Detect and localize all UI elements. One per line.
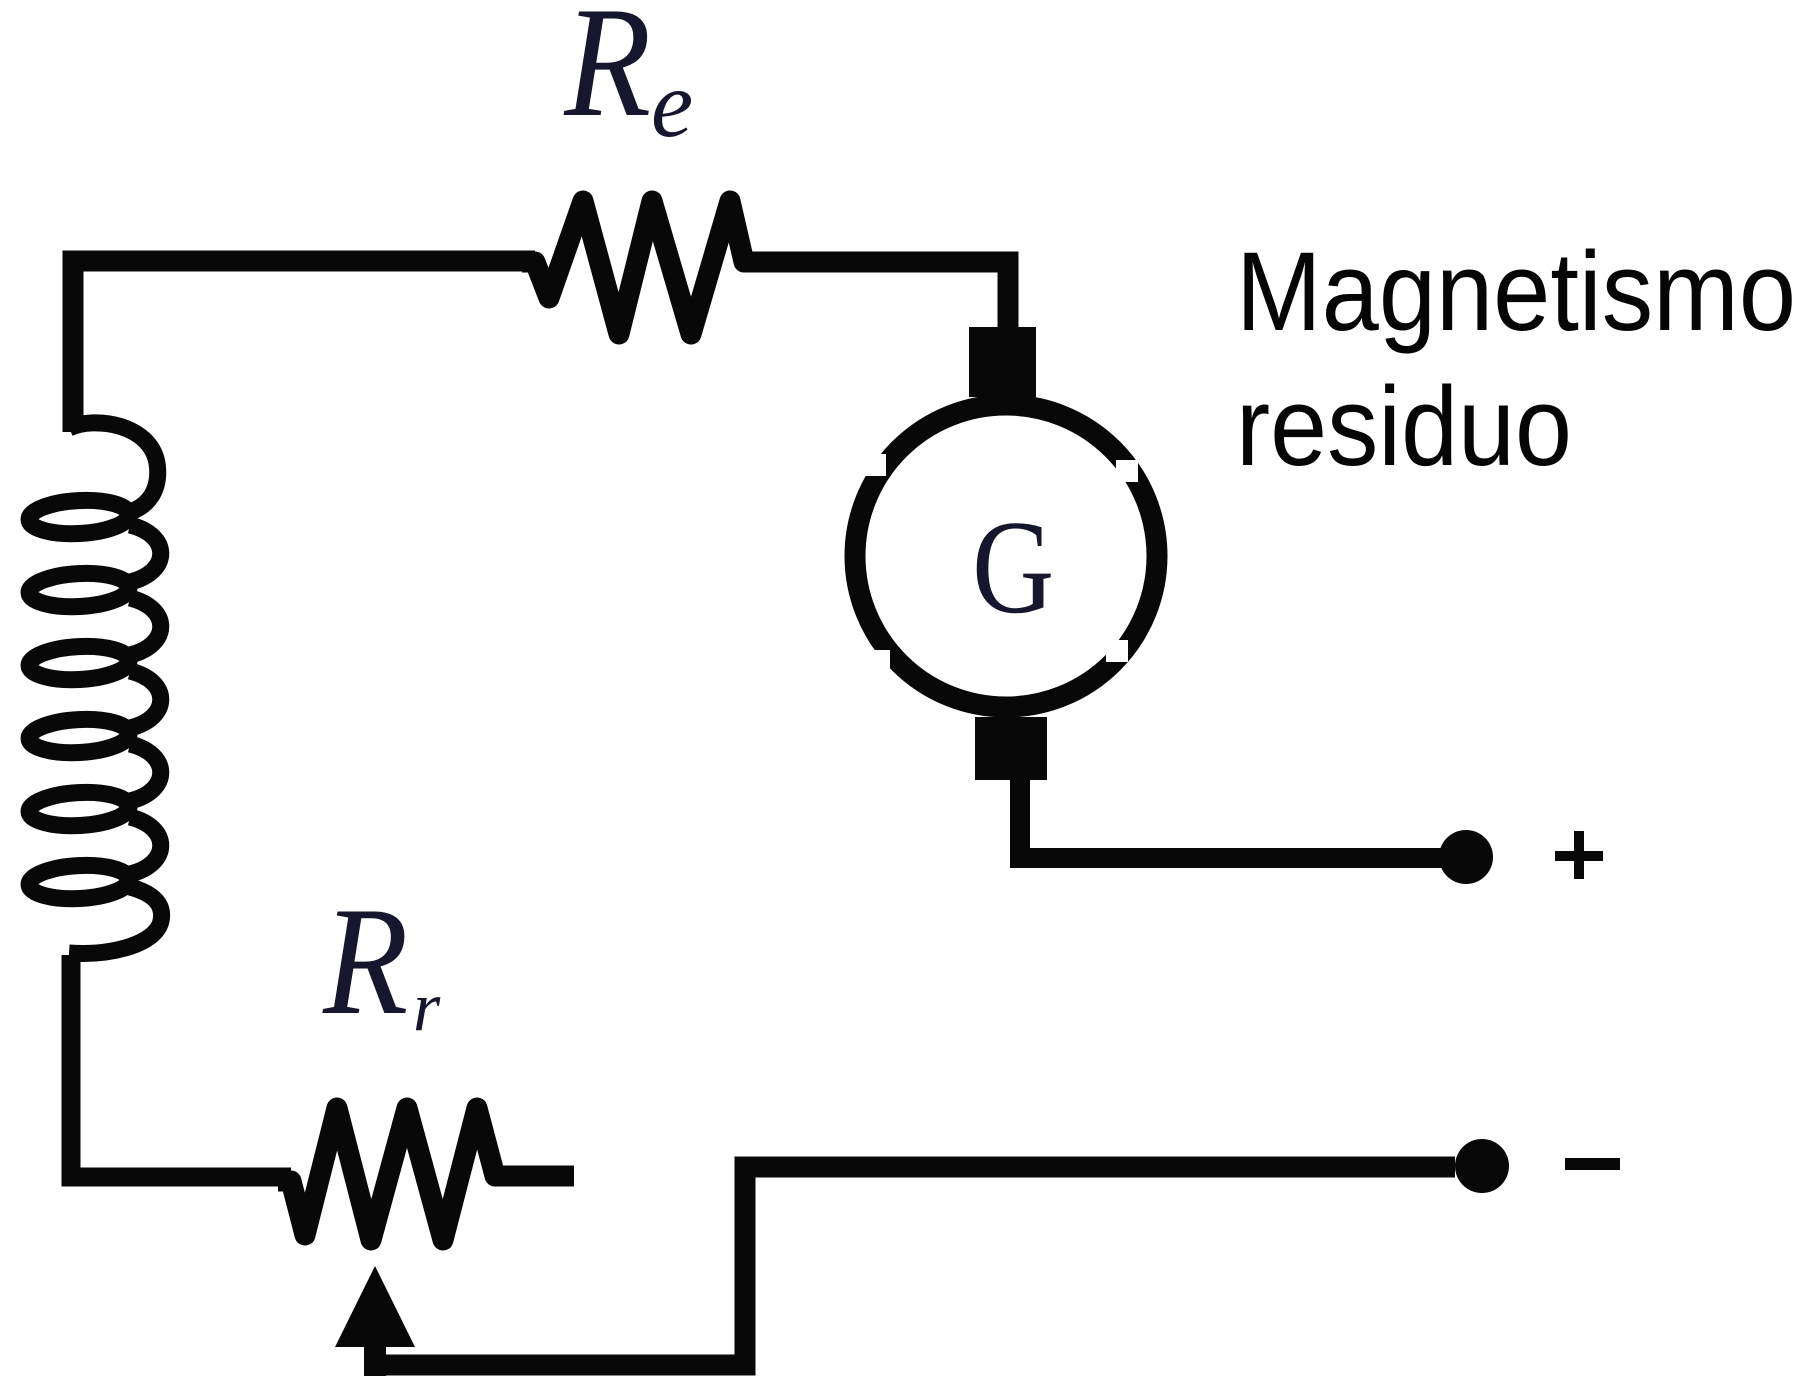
Rr right stub lead: [495, 1166, 574, 1187]
coil arc 3-4: [130, 671, 161, 728]
wire left-bottom: vertical drop and bottom horizontal to Rr: [71, 955, 291, 1177]
coil arc 4-5: [130, 744, 161, 801]
generator bottom brush terminal: [975, 717, 1047, 780]
svg-text:G: G: [972, 492, 1054, 641]
arrow shaft: [364, 1340, 386, 1376]
resistor Re: [522, 201, 758, 334]
resistor Rr (rheostat): [278, 1108, 506, 1240]
inductor coil (field winding): [28, 423, 161, 954]
brush notch marks (white) on circle: [864, 454, 1138, 672]
wire top-left: horizontal top wire and left vertical drop: [73, 261, 535, 432]
svg-text:e: e: [651, 51, 693, 157]
generator G circle: [855, 405, 1157, 707]
wire from Re to generator top: [744, 262, 1008, 334]
coil loop 5: [28, 790, 130, 828]
wire generator bottom to plus terminal: [1020, 778, 1466, 858]
label Re: [563, 0, 693, 157]
coil loop 2: [28, 571, 130, 609]
node minus terminal dot: [1455, 1139, 1509, 1193]
minus sign: [1565, 1158, 1620, 1170]
rheostat wiper arrow: [335, 1266, 415, 1347]
wire from wiper to minus terminal: [364, 1167, 1455, 1365]
coil arc 2-3: [130, 598, 161, 655]
coil entry arc: [69, 423, 158, 512]
svg-text:R: R: [563, 0, 651, 150]
svg-text:residuo: residuo: [1236, 364, 1572, 489]
label Rr: [322, 875, 441, 1046]
coil loop 4: [28, 717, 130, 755]
svg-text:R: R: [322, 875, 408, 1046]
coil loop 3: [28, 644, 130, 682]
text Magnetismo residuo: [1236, 229, 1796, 489]
coil loop 6: [28, 863, 130, 901]
coil exit arc: [69, 887, 162, 953]
plus sign: [1555, 831, 1603, 879]
coil arc 1-2: [130, 525, 161, 582]
generator top brush terminal: [969, 327, 1036, 397]
svg-text:Magnetismo: Magnetismo: [1236, 229, 1796, 354]
coil loop 1: [28, 498, 130, 536]
coil arc 5-6: [130, 817, 161, 874]
node plus terminal dot: [1439, 830, 1493, 884]
svg-text:r: r: [413, 969, 441, 1046]
